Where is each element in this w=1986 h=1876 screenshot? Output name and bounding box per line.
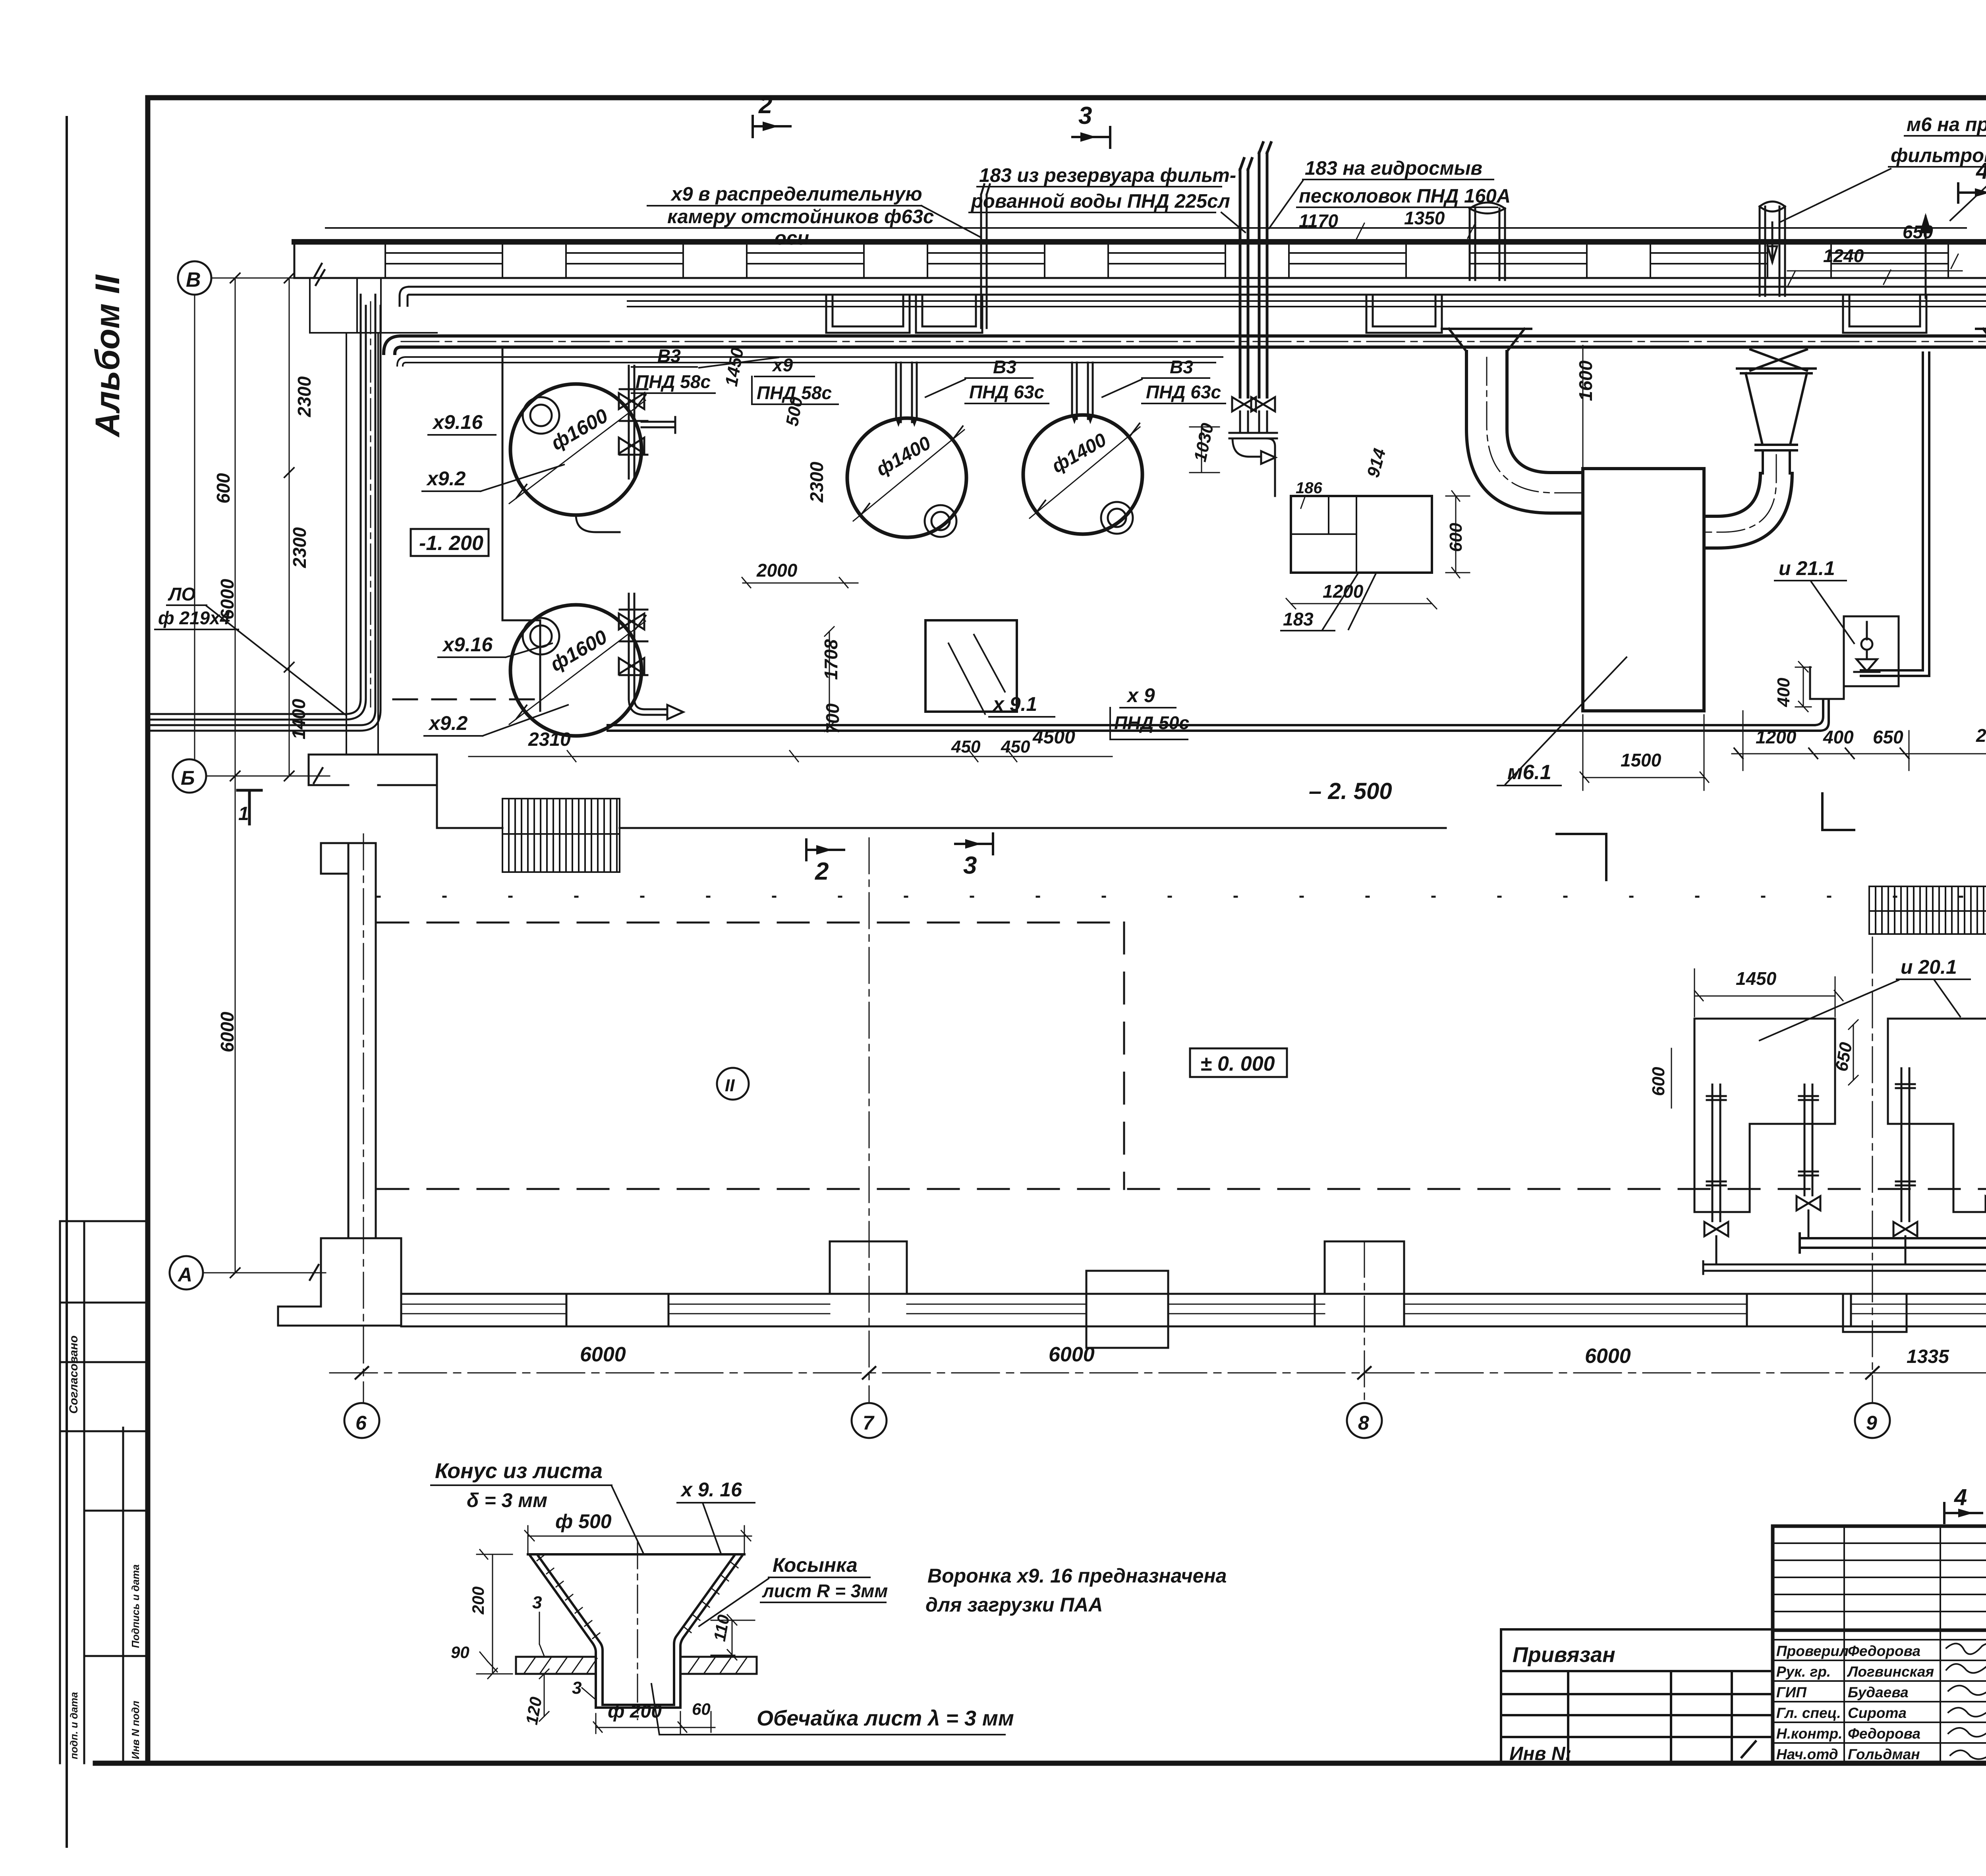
dashed area rect right	[1123, 923, 1125, 1189]
bell flare left group	[1442, 329, 1531, 351]
svg-text:х9.2: х9.2	[428, 712, 468, 734]
svg-text:4500: 4500	[1032, 727, 1075, 748]
tank X9.2 no.2 f1600	[510, 605, 641, 736]
svg-text:δ = 3 мм: δ = 3 мм	[467, 1489, 547, 1511]
svg-text:Гольдман: Гольдман	[1848, 1746, 1920, 1762]
svg-text:ЛО: ЛО	[168, 584, 196, 604]
column axis9 pad	[1843, 1294, 1907, 1332]
wall ledge at axis B	[309, 755, 437, 785]
manhole tank3	[925, 505, 956, 537]
riser 183 pair	[1240, 143, 1271, 397]
svg-text:6000: 6000	[1585, 1345, 1631, 1368]
svg-text:Воронка х9. 16 предназначена: Воронка х9. 16 предназначена	[927, 1565, 1227, 1587]
svg-text:183: 183	[1283, 609, 1314, 629]
m6 stub mid (f820x4)	[1760, 202, 1785, 296]
svg-text:6000: 6000	[217, 1011, 238, 1052]
x9 long pipe	[608, 725, 1820, 731]
svg-text:В: В	[186, 268, 201, 291]
svg-text:650: 650	[1873, 727, 1903, 747]
svg-text:186: 186	[1296, 479, 1322, 497]
pit x9.1	[925, 620, 1017, 712]
svg-text:1200: 1200	[1323, 581, 1364, 602]
section mark 1 left	[238, 790, 261, 824]
svg-text:700: 700	[822, 703, 843, 734]
svg-text:подп. и дата: подп. и дата	[68, 1692, 80, 1759]
funnel cone section	[528, 1554, 744, 1656]
tick marks near axis B left	[314, 264, 322, 278]
svg-text:ПНД 50с: ПНД 50с	[1114, 712, 1189, 733]
risers to tank4	[1072, 363, 1093, 419]
svg-text:м6 на промывку: м6 на промывку	[1907, 114, 1986, 135]
manhole tank1	[523, 397, 559, 434]
svg-text:рованной воды ПНД 225сл: рованной воды ПНД 225сл	[970, 191, 1230, 212]
svg-text:1450: 1450	[1736, 968, 1777, 989]
diameter line tank4	[1030, 427, 1140, 518]
manifold pipe	[1800, 1233, 1986, 1253]
svg-text:200: 200	[469, 1586, 487, 1615]
svg-text:фильтров ф820х 4: фильтров ф820х 4	[1891, 145, 1986, 166]
step foundation	[1810, 667, 1844, 699]
svg-text:1450: 1450	[722, 346, 748, 388]
svg-text:Альбом II: Альбом II	[89, 274, 127, 438]
svg-text:1500: 1500	[1621, 750, 1661, 770]
elbow from funnel into rect	[1704, 473, 1792, 548]
diameter line tank2	[509, 621, 645, 724]
svg-text:II: II	[725, 1076, 735, 1095]
valve cluster tank1	[619, 366, 675, 479]
svg-text:183 из резервуара фильт-: 183 из резервуара фильт-	[979, 165, 1236, 186]
room mark II	[717, 1068, 749, 1100]
section flag 2 top	[753, 116, 790, 137]
filter tank M6.1 rect	[1583, 469, 1704, 711]
svg-text:400: 400	[1774, 677, 1793, 707]
note voronka	[925, 1565, 1227, 1616]
svg-text:Федорова: Федорова	[1848, 1643, 1920, 1659]
TITLEBLOCK	[1773, 1526, 1986, 1764]
left wall lines	[346, 333, 378, 755]
label 183 iz rezervuara	[970, 165, 1236, 212]
dotted walkway line	[377, 896, 1986, 898]
svg-text:4: 4	[1976, 158, 1986, 184]
svg-text:х 9.1: х 9.1	[992, 693, 1037, 715]
svg-text:1400: 1400	[288, 699, 309, 739]
long suction pipe	[1703, 1261, 1986, 1274]
riser x9 to raspred kamera	[981, 184, 990, 328]
axis A circle	[170, 1256, 203, 1289]
svg-text:60: 60	[692, 1700, 711, 1718]
svg-text:А: А	[177, 1264, 192, 1286]
svg-text:450: 450	[951, 737, 981, 757]
svg-text:м6.1: м6.1	[1507, 761, 1551, 784]
svg-text:ф1600: ф1600	[547, 625, 611, 676]
stair grate right	[1869, 886, 1986, 934]
svg-text:Логвинская: Логвинская	[1847, 1664, 1934, 1680]
svg-text:3: 3	[532, 1593, 542, 1612]
axis B line	[211, 278, 322, 279]
svg-text:6000: 6000	[1049, 1343, 1095, 1366]
svg-text:Конус из листа: Конус из листа	[435, 1459, 603, 1483]
tank X9.3 no.1 f1400	[847, 418, 966, 537]
header axis dash-dot	[401, 341, 1986, 342]
svg-text:Сирота: Сирота	[1848, 1705, 1907, 1721]
privyazan table	[1501, 1629, 1773, 1764]
level mark 0.000	[1190, 1048, 1287, 1077]
title block outer	[1773, 1526, 1986, 1764]
svg-text:Проверил: Проверил	[1776, 1643, 1849, 1659]
bottom dimension line	[330, 1372, 1986, 1374]
center axis of funnel	[637, 1541, 638, 1720]
tank X9.2 no.1 f1600	[510, 384, 641, 515]
riser valves	[1704, 1196, 1986, 1236]
wall step above pit	[502, 349, 540, 711]
axis B circle	[178, 261, 211, 295]
corridor wall	[348, 843, 376, 1237]
axis circle 9	[1855, 1403, 1890, 1438]
svg-text:Инв N:: Инв N:	[1509, 1743, 1572, 1764]
svg-text:450: 450	[1001, 737, 1030, 757]
svg-text:Обечайка лист λ = 3 мм: Обечайка лист λ = 3 мм	[757, 1706, 1014, 1730]
foundation at A axis6	[278, 1238, 401, 1326]
outer thin border left	[66, 117, 68, 1847]
sludge thickener T-block 1	[1694, 1019, 1835, 1212]
svg-text:6000: 6000	[580, 1343, 626, 1366]
svg-text:ф1400: ф1400	[1048, 429, 1110, 477]
svg-text:4: 4	[1954, 1484, 1967, 1510]
svg-text:Федорова: Федорова	[1848, 1725, 1920, 1742]
column axis8	[1325, 1241, 1404, 1294]
svg-text:1030: 1030	[1190, 421, 1217, 463]
equipment pad mid	[1086, 1271, 1168, 1348]
svg-text:1350: 1350	[1404, 208, 1445, 228]
svg-text:х 9. 16: х 9. 16	[680, 1478, 742, 1501]
bottom wall band	[401, 1294, 1986, 1326]
axis 6 dash-dot vertical	[363, 834, 364, 1402]
riser pipes with flanges	[1707, 1068, 1986, 1221]
svg-text:650: 650	[1903, 222, 1933, 242]
tank X9.3 no.2 f1400	[1023, 415, 1142, 534]
top wall outer line	[294, 239, 1986, 245]
stair grate upper	[502, 799, 620, 872]
corner mark mid	[1557, 834, 1606, 880]
wall pocket left	[310, 278, 437, 333]
svg-text:1170: 1170	[1299, 210, 1338, 231]
svg-text:90: 90	[451, 1643, 469, 1662]
svg-text:1708: 1708	[821, 639, 841, 680]
svg-text:х9 в распределительную: х9 в распределительную	[670, 183, 922, 205]
pilaster blocks	[566, 1294, 1986, 1326]
svg-text:Привязан: Привязан	[1513, 1643, 1615, 1667]
svg-text:600: 600	[213, 473, 234, 504]
frame bottom line	[95, 1761, 1986, 1766]
flange plates with hatch	[516, 1657, 757, 1674]
svg-text:ПНД 63с: ПНД 63с	[969, 382, 1044, 402]
svg-text:1240: 1240	[1823, 245, 1864, 266]
svg-text:Косынка: Косынка	[773, 1554, 858, 1576]
manhole tank4	[1101, 502, 1133, 534]
svg-text:Согласовано: Согласовано	[67, 1336, 80, 1414]
svg-text:х9.16: х9.16	[432, 411, 483, 433]
svg-text:9: 9	[1866, 1412, 1877, 1434]
svg-text:3: 3	[963, 852, 977, 879]
svg-text:2300: 2300	[294, 376, 315, 417]
signature scribbles	[1946, 1644, 1986, 1759]
svg-text:2300: 2300	[806, 461, 827, 503]
axis circle 8	[1347, 1403, 1382, 1438]
top wall inner line	[294, 277, 1986, 279]
left vertical stamp table	[60, 1221, 147, 1763]
svg-text:Гл. спец.: Гл. спец.	[1776, 1705, 1841, 1721]
neck walls	[596, 1656, 680, 1708]
valve cluster tank2	[619, 594, 683, 719]
diameter line tank3	[853, 430, 964, 521]
basin 183	[1291, 496, 1432, 573]
svg-text:В3: В3	[993, 357, 1016, 377]
axis B(cyr) circle	[173, 759, 206, 793]
svg-text:В3: В3	[1170, 357, 1193, 377]
svg-text:1200: 1200	[1756, 727, 1797, 747]
pipe run A upper	[400, 287, 1986, 336]
svg-text:– 2. 500: – 2. 500	[1309, 778, 1392, 804]
svg-text:6: 6	[355, 1412, 367, 1434]
column axis7	[830, 1241, 907, 1294]
svg-text:914: 914	[1363, 446, 1389, 480]
x9 pipe elbow up to valve unit	[1814, 700, 1829, 731]
label x9 raspred	[667, 183, 934, 249]
svg-text:и 21.1: и 21.1	[1779, 557, 1835, 579]
svg-text:Будаева: Будаева	[1848, 1684, 1909, 1700]
svg-text:3: 3	[1078, 102, 1092, 129]
valve unit i21.1	[1844, 616, 1899, 686]
svg-text:х 9: х 9	[1126, 684, 1155, 706]
pipe run B main header	[384, 336, 1986, 353]
left riser shaft pipes	[151, 295, 381, 731]
svg-text:оси: оси	[775, 228, 809, 249]
manhole tank2	[523, 618, 559, 654]
svg-text:183 на гидросмыв: 183 на гидросмыв	[1305, 158, 1482, 179]
sludge thickener T-block 2	[1888, 1019, 1986, 1212]
pipe bundle lines	[628, 301, 1986, 307]
pipe run C tank header	[397, 357, 1223, 366]
svg-text:ф 200: ф 200	[608, 1701, 662, 1722]
svg-text:ГИП: ГИП	[1776, 1684, 1807, 1700]
svg-text:х9.16: х9.16	[442, 633, 493, 656]
svg-text:1: 1	[238, 803, 249, 824]
axis circle 6	[344, 1403, 379, 1438]
svg-text:3: 3	[572, 1678, 582, 1698]
section flag 3 top	[1072, 127, 1110, 148]
section flag 3 bottom	[955, 834, 993, 854]
svg-text:600: 600	[1649, 1067, 1668, 1096]
arrow up i21	[1921, 216, 1930, 298]
shaft dash-dot	[370, 302, 371, 707]
svg-text:ф1400: ф1400	[873, 432, 935, 481]
svg-text:8: 8	[1358, 1412, 1369, 1434]
level mark -1.200	[411, 529, 489, 556]
svg-text:х9: х9	[771, 355, 793, 375]
svg-text:Подпись и дата: Подпись и дата	[129, 1564, 141, 1648]
svg-text:лист R = 3мм: лист R = 3мм	[762, 1581, 888, 1601]
signature table rows (upper empty)	[1773, 1542, 1986, 1544]
signature table columns	[1843, 1526, 1845, 1764]
x9.2 pipes under tank1 to header	[576, 515, 620, 532]
svg-text:2300: 2300	[1976, 725, 1986, 746]
svg-text:± 0. 000: ± 0. 000	[1200, 1052, 1275, 1075]
wall inner double lines segments	[401, 1304, 1986, 1314]
svg-text:ПНД 63с: ПНД 63с	[1146, 382, 1221, 402]
svg-text:1600: 1600	[1575, 360, 1596, 401]
svg-text:Нач.отд: Нач.отд	[1776, 1746, 1838, 1762]
svg-text:камеру отстойников ф63с: камеру отстойников ф63с	[667, 206, 934, 228]
cone hatch	[537, 1555, 738, 1639]
svg-text:120: 120	[522, 1695, 545, 1726]
dashed partition	[393, 699, 540, 711]
svg-text:2000: 2000	[756, 560, 798, 581]
svg-text:и 20.1: и 20.1	[1901, 956, 1957, 978]
svg-text:2: 2	[758, 91, 772, 119]
svg-text:7: 7	[863, 1412, 875, 1434]
basin risers	[1229, 397, 1277, 496]
label m6 promyvku f820x4	[1891, 114, 1986, 166]
svg-text:ф 219х4: ф 219х4	[158, 608, 230, 628]
risers to tank3	[896, 363, 917, 422]
svg-text:х9.2: х9.2	[426, 467, 466, 490]
svg-text:Н.контр.: Н.контр.	[1776, 1725, 1842, 1742]
bell flare right group	[1976, 329, 1986, 351]
left dim chain lines	[235, 278, 289, 1273]
svg-text:Б: Б	[181, 767, 195, 789]
label 183 gidrosmyv	[1299, 158, 1511, 207]
svg-text:ф 500: ф 500	[555, 1510, 612, 1532]
svg-text:2310: 2310	[528, 729, 571, 750]
svg-text:-1. 200: -1. 200	[419, 532, 483, 555]
m6 stub mid-left	[1470, 203, 1505, 280]
diameter line tank1	[509, 400, 645, 504]
svg-text:Инв N подл: Инв N подл	[129, 1701, 141, 1759]
svg-text:В3: В3	[657, 345, 681, 366]
dashed long line lower	[377, 1188, 1986, 1190]
section flag 2 bottom	[806, 840, 844, 860]
drop pipe to valve unit	[1861, 353, 1929, 676]
svg-text:1335: 1335	[1907, 1346, 1949, 1367]
section 4 corner mark left	[1822, 793, 1854, 830]
svg-text:400: 400	[1823, 727, 1854, 747]
axis circle 7	[852, 1403, 887, 1438]
funnel venturi left group	[1737, 349, 1816, 473]
signature names	[1776, 1643, 1934, 1762]
elbow pipe left group	[1466, 351, 1583, 513]
svg-text:Рук. гр.: Рук. гр.	[1776, 1664, 1831, 1680]
svg-text:2300: 2300	[289, 527, 310, 568]
svg-text:ф1600: ф1600	[547, 404, 612, 454]
svg-text:2: 2	[815, 858, 829, 885]
wall panel pattern	[385, 242, 1986, 278]
dashed area rect top	[377, 922, 1124, 924]
upper hall floor edge	[437, 827, 1446, 829]
svg-text:для загрузки ПАА: для загрузки ПАА	[925, 1594, 1103, 1616]
